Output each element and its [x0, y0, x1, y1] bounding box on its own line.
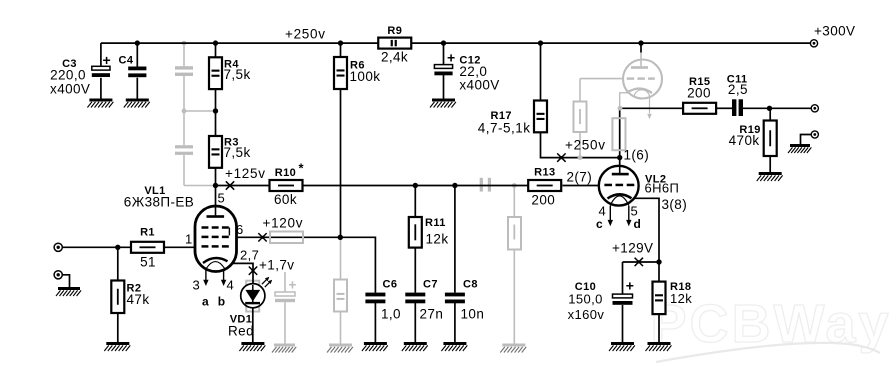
- junction dot rail R4: [213, 40, 218, 45]
- label C10: [568, 281, 605, 322]
- LED VD1 light arrows: [262, 277, 272, 287]
- svg-text:x400V: x400V: [50, 81, 90, 96]
- pentode VL1 cathode arc: [203, 258, 228, 263]
- terminal +300V: [810, 40, 817, 47]
- wire R4 to R3: [215, 89, 217, 136]
- output terminal 2: [811, 131, 818, 138]
- svg-text:+125v: +125v: [225, 166, 266, 181]
- wire VL2 anode riser to output corner: [620, 108, 684, 157]
- capacitor C3: [92, 66, 110, 77]
- wire VL1 cathode to VD1: [228, 261, 254, 290]
- capacitor C11: [732, 99, 743, 116]
- ground below C8: [441, 342, 467, 351]
- wire R2 to ground: [117, 313, 119, 342]
- wire R10 to R13 node segment: [303, 185, 530, 187]
- triode VL2 cathode arc: [608, 194, 632, 198]
- resistor R6: [334, 57, 347, 89]
- wire R3 to anode node: [215, 168, 217, 186]
- wire VL1 screen pin 6 to +120v node and C6: [229, 228, 375, 293]
- pentode VL1 heater pin 3 with arrow: [203, 269, 208, 286]
- label C12: [459, 55, 499, 93]
- svg-text:C4: C4: [119, 55, 134, 67]
- wire C6 to ground: [374, 303, 376, 342]
- svg-text:+120v: +120v: [263, 216, 304, 231]
- svg-text:c: c: [596, 217, 603, 231]
- X marker +129V: [635, 258, 643, 266]
- svg-text:3(8): 3(8): [662, 197, 688, 212]
- wire R11 to C7: [414, 248, 416, 293]
- label C4: [119, 55, 134, 67]
- wire R1 to VL1 grid pin 1: [164, 246, 202, 248]
- wire C3 to ground: [100, 78, 102, 99]
- svg-text:60k: 60k: [274, 192, 297, 207]
- svg-text:6Н6П: 6Н6П: [645, 181, 680, 196]
- label +129V: [612, 241, 653, 256]
- wire rail to C12: [443, 43, 445, 65]
- label pin 5 VL1: [218, 191, 226, 206]
- label pin 4 VL1: [227, 278, 235, 293]
- wire R2 drop: [117, 247, 119, 280]
- ghost coupling capacitor on anode node line: [480, 178, 491, 192]
- label R15: [687, 76, 711, 101]
- label pin 3(8): [662, 197, 688, 212]
- label R9: [381, 25, 408, 65]
- svg-text:3: 3: [193, 278, 201, 293]
- wire C4 to ground: [136, 78, 138, 99]
- svg-text:d: d: [634, 217, 642, 231]
- svg-text:100k: 100k: [350, 69, 381, 84]
- label C3: [50, 58, 90, 96]
- ghost ground below bypass capacitor: [272, 344, 296, 353]
- svg-text:2(7): 2(7): [567, 169, 593, 184]
- label C8: [461, 279, 485, 322]
- junction dot +120v node: [338, 235, 343, 240]
- wire R6 down to +120v node: [340, 89, 342, 237]
- label C3 polarity +: [103, 52, 112, 68]
- resistor R10: [270, 180, 303, 191]
- label R17: [478, 110, 531, 135]
- svg-text:47k: 47k: [127, 292, 150, 307]
- svg-text:10n: 10n: [461, 307, 485, 322]
- label pin 1(6): [624, 148, 650, 163]
- ghost grid wire of unused triode: [580, 79, 623, 102]
- wire rail to R6: [340, 43, 342, 57]
- resistor R1: [131, 242, 164, 253]
- svg-text:1: 1: [185, 232, 193, 247]
- wire rail to R17: [540, 43, 542, 100]
- ghost junction dot at output corner: [618, 106, 623, 111]
- svg-text:220,0: 220,0: [50, 67, 86, 82]
- wire R18 drop: [658, 262, 660, 282]
- svg-text:5: 5: [218, 191, 226, 206]
- wire C4 riser: [136, 43, 138, 66]
- junction dot input R2: [115, 245, 120, 250]
- capacitor C7: [405, 293, 425, 304]
- junction dot +129V node: [656, 259, 661, 264]
- ground below C12: [430, 99, 456, 108]
- svg-text:R11: R11: [425, 217, 446, 229]
- wire R19 to ground: [769, 156, 771, 172]
- svg-text:200: 200: [687, 86, 711, 101]
- pentode VL1 envelope: [195, 206, 237, 272]
- label R2: [127, 283, 150, 308]
- wire cathode node to C10: [623, 261, 660, 263]
- output terminal 1: [811, 105, 818, 112]
- wire R15 to C11: [716, 107, 732, 109]
- label R1: [140, 227, 156, 270]
- svg-text:R10: R10: [275, 167, 296, 179]
- input terminal 2: [54, 271, 62, 279]
- svg-text:6Ж38П-ЕВ: 6Ж38П-ЕВ: [124, 195, 194, 210]
- svg-text:R1: R1: [140, 227, 155, 239]
- wire C10 to ground: [622, 305, 624, 342]
- capacitor C6: [365, 293, 385, 304]
- label C11: [727, 73, 748, 97]
- label +120v: [263, 216, 304, 231]
- label R13: [531, 167, 555, 208]
- triode VL2 anode stem inside: [619, 165, 621, 173]
- ghost unused triode VL2 second half: [620, 53, 662, 120]
- svg-text:R9: R9: [387, 25, 402, 37]
- ground at output terminal 2: [788, 144, 811, 153]
- wire anode node line VL1 to R10: [216, 185, 270, 187]
- junction dot VL2 anode 1(6): [617, 155, 622, 160]
- triode VL2 heater pin 4 with arrow: [608, 206, 613, 227]
- svg-text:7,5k: 7,5k: [224, 67, 251, 82]
- svg-text:b: b: [218, 295, 226, 309]
- wire C10 drop: [622, 262, 624, 294]
- svg-text:+250v: +250v: [285, 26, 326, 41]
- label R19: [729, 124, 761, 148]
- resistor R17: [534, 101, 547, 133]
- junction dot anode node: [213, 183, 218, 188]
- label pin 3 VL1: [193, 278, 201, 293]
- resistor R15: [683, 103, 716, 114]
- wire R13 to VL2 grid: [563, 185, 605, 187]
- svg-text:+: +: [447, 50, 456, 66]
- wire VL1 anode stem: [215, 186, 217, 216]
- capacitor C4: [128, 67, 146, 78]
- junction dot node R11: [413, 183, 418, 188]
- junction dot output R19: [767, 106, 772, 111]
- svg-text:200: 200: [531, 193, 555, 208]
- ghost screen feed resistor on +120v wire: [270, 232, 303, 244]
- resistor R4: [209, 57, 222, 89]
- watermark PCBWay: [650, 294, 890, 362]
- ground at input terminal 2: [56, 287, 81, 296]
- label R11: [425, 217, 448, 247]
- label VL2: [645, 174, 680, 196]
- ghost junction dot on +250v line: [578, 155, 583, 160]
- wire C7 to ground: [414, 303, 416, 342]
- X marker +1,7v: [249, 267, 257, 275]
- ghost wire left capacitor chain vertical: [184, 43, 216, 185]
- wire VL2 anode stem: [619, 158, 621, 173]
- svg-text:2,5: 2,5: [728, 82, 748, 97]
- svg-text:12k: 12k: [670, 291, 692, 306]
- wire VD1 to ground: [252, 304, 254, 342]
- ghost screen resistor chain below +120v node: [334, 239, 347, 344]
- ghost wire resistor to +250v line: [579, 132, 581, 158]
- label heater b: [218, 295, 226, 309]
- X marker +125v: [226, 181, 234, 189]
- capacitor C12: [434, 65, 452, 76]
- label heater a: [202, 295, 209, 309]
- label pin 2(7): [567, 169, 593, 184]
- ghost ground below grid resistor chain: [500, 344, 526, 353]
- wire +250v rail right segment to +300V terminal: [411, 42, 810, 44]
- ground below R2: [104, 342, 130, 351]
- resistor R18: [653, 282, 666, 315]
- wire C8 tap from node line: [454, 186, 456, 293]
- junction dot rail R6: [338, 40, 343, 45]
- label VD1: [228, 314, 254, 339]
- ground below R18: [646, 342, 672, 351]
- svg-text:+: +: [289, 278, 297, 293]
- label R18: [670, 281, 692, 306]
- svg-text:470k: 470k: [729, 133, 760, 148]
- triode VL2 heater pin 5 with arrow: [626, 206, 631, 227]
- label +1,7v: [259, 258, 294, 273]
- svg-text:+: +: [103, 52, 112, 68]
- svg-text:*: *: [299, 161, 305, 176]
- svg-text:C8: C8: [463, 279, 478, 291]
- ghost ground below screen resistor chain: [327, 344, 353, 353]
- svg-text:a: a: [202, 295, 209, 309]
- svg-text:1,0: 1,0: [381, 307, 401, 322]
- svg-text:6: 6: [236, 222, 244, 237]
- label heater c: [596, 217, 603, 231]
- resistor R11: [409, 217, 422, 248]
- label +250v rail: [285, 26, 326, 41]
- svg-text:150,0: 150,0: [568, 292, 603, 307]
- svg-text:x400V: x400V: [459, 78, 499, 93]
- label VL1: [124, 185, 194, 210]
- junction dot rail VL2 anode branch: [638, 40, 643, 45]
- label C6: [381, 279, 401, 322]
- junction dot rail R17: [538, 40, 543, 45]
- wire rail to R4: [215, 43, 217, 57]
- wire R11 tap from node line: [414, 186, 416, 218]
- svg-text:7,5k: 7,5k: [224, 145, 251, 160]
- ground below R19: [757, 172, 783, 181]
- pentode VL1 anode bar: [207, 215, 225, 218]
- wire C3 riser: [100, 43, 102, 66]
- pentode VL1 grid dashes: [202, 226, 229, 247]
- label R3: [224, 137, 251, 161]
- junction dot rail C4: [135, 40, 140, 45]
- ghost junction dot node line x514: [512, 183, 517, 188]
- label pin 2,7 VL1: [240, 248, 259, 263]
- svg-text:4,7-5,1k: 4,7-5,1k: [478, 120, 531, 135]
- X marker +250v at VL2: [557, 153, 565, 161]
- pentode VL1 heater loop: [206, 262, 225, 269]
- label pin 5 VL2: [631, 204, 639, 219]
- triode VL2 envelope circle: [599, 166, 639, 206]
- ground below C3: [87, 99, 113, 108]
- svg-text:2,7: 2,7: [240, 248, 259, 263]
- wire R18 to ground: [658, 314, 660, 342]
- label +300V: [814, 23, 855, 38]
- svg-text:+300V: +300V: [814, 23, 855, 38]
- svg-text:C7: C7: [423, 279, 438, 291]
- ghost junction dot rail x184: [182, 41, 187, 46]
- label C7: [420, 279, 444, 322]
- svg-text:+129V: +129V: [612, 241, 653, 256]
- svg-text:+: +: [626, 278, 635, 294]
- wire +250v rail left segment: [101, 42, 379, 44]
- svg-text:12k: 12k: [426, 232, 449, 247]
- svg-text:1(6): 1(6): [624, 148, 650, 163]
- svg-text:+250v: +250v: [565, 137, 606, 152]
- ghost capacitor lower left: [175, 145, 193, 155]
- wire C12 to ground: [443, 75, 445, 99]
- junction dot rail C12: [441, 40, 446, 45]
- ghost junction dot x184 y111: [182, 109, 187, 114]
- wire ghost tube anode stem black part: [640, 43, 642, 52]
- svg-text:R13: R13: [534, 167, 555, 179]
- ghost capacitor upper left: [175, 66, 193, 76]
- label C12 polarity +: [447, 50, 456, 66]
- LED VD1: [241, 284, 265, 308]
- pentode VL1 screen tap to pin 6: [228, 228, 230, 236]
- svg-text:C6: C6: [383, 279, 398, 291]
- svg-text:+1,7v: +1,7v: [259, 258, 294, 273]
- wire R17 to +250v node line: [541, 132, 620, 157]
- ghost grid resistor chain mid: [508, 186, 521, 344]
- resistor R9: [378, 38, 411, 49]
- ground below C6: [362, 342, 388, 351]
- label pin 1 VL1: [185, 232, 193, 247]
- pentode VL1 anode stem inside: [215, 206, 217, 215]
- label pin 4 VL2: [599, 204, 607, 219]
- X marker +120v: [258, 233, 266, 241]
- ground below C4: [124, 99, 150, 108]
- svg-text:27n: 27n: [420, 307, 444, 322]
- triode VL2 heater loop: [610, 196, 629, 205]
- svg-text:x160v: x160v: [568, 307, 605, 322]
- junction dot R4-R3: [213, 108, 218, 113]
- svg-text:51: 51: [140, 255, 156, 270]
- resistor R19: [764, 121, 777, 157]
- ground below VD1: [239, 342, 265, 351]
- svg-text:2,4k: 2,4k: [381, 50, 408, 65]
- label C10 polarity +: [626, 278, 635, 294]
- capacitor C10: [613, 294, 633, 305]
- svg-text:Red: Red: [228, 324, 254, 339]
- wire VL2 cathode pin 3(8): [632, 198, 660, 262]
- ghost resistor upper left of unused triode: [574, 102, 587, 133]
- resistor R3: [209, 136, 222, 168]
- label R10 with asterisk: [274, 161, 304, 208]
- wire C8 to ground: [454, 303, 456, 342]
- ghost cathode bypass capacitor beside VD1: [275, 272, 297, 344]
- label R4: [224, 59, 251, 83]
- pentode VL1 heater pin 4 with arrow: [221, 269, 226, 286]
- label R6: [350, 60, 381, 85]
- triode VL2 anode bar: [612, 173, 629, 176]
- junction dot node C8: [452, 183, 457, 188]
- ghost resistor behind VD1: [246, 281, 259, 312]
- wire C11 to output terminal: [743, 107, 811, 109]
- input terminal 1: [54, 243, 62, 251]
- wire input terminal 2 to ground: [62, 275, 69, 287]
- ghost anode resistor on VL2 riser: [612, 118, 625, 150]
- label pin 6 VL1: [236, 222, 244, 237]
- ground below C10: [609, 342, 635, 351]
- resistor R13: [528, 180, 561, 191]
- wire input terminal to R1: [62, 246, 131, 248]
- label +250v at VL2: [565, 137, 606, 152]
- label +125v: [225, 166, 266, 181]
- wire output terminal 2 to ground: [801, 135, 812, 145]
- wire R19 drop: [769, 108, 771, 120]
- svg-text:4: 4: [227, 278, 235, 293]
- label heater d: [634, 217, 642, 231]
- resistor R2: [111, 281, 124, 314]
- ground below C7: [402, 342, 428, 351]
- triode VL2 grid dashes: [604, 184, 634, 187]
- capacitor C8: [445, 293, 465, 304]
